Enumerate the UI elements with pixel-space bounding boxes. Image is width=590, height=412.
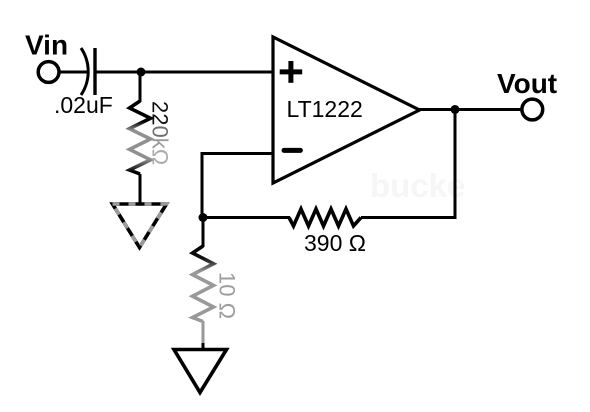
wire node B to resistor R2 [202,216,290,219]
svg-text:390 Ω: 390 Ω [304,230,366,256]
op-amp minus input symbol [284,148,300,153]
resistor R2 390 [289,209,361,226]
label Vin [25,30,68,61]
node A junction dot [137,68,146,77]
op-amp plus input symbol [280,61,303,83]
ground (under R3) [174,350,227,393]
resistor R3 10 [193,246,214,322]
wire node B down to resistor R3 [202,218,205,248]
svg-text:220kΩ: 220kΩ [148,101,173,165]
wire minus input down to node B [201,152,204,219]
node B junction dot [199,213,208,222]
ground (under R1) [113,204,167,248]
svg-text:.02uF: .02uF [54,92,113,118]
svg-text:Vin: Vin [25,30,68,61]
wire op-amp output to Vout [417,108,522,111]
resistor R1 220k [130,101,151,174]
svg-text:LT1222: LT1222 [287,96,363,122]
value label 220kOhm [148,101,173,165]
capacitor C1 [81,48,95,95]
wire resistor R3 to ground (gray then black) [202,321,205,349]
value label .02uF [54,92,113,118]
svg-text:Vout: Vout [497,68,557,99]
wire resistor R2 to feedback corner [361,216,457,219]
label LT1222 [287,96,363,122]
value label 10 Ohm [215,272,240,319]
terminal Vout [522,99,543,120]
wire feedback vertical up to output [454,110,457,220]
wire node A down to resistor R1 [139,72,142,102]
wire resistor R1 to ground [139,174,142,203]
wire Vin terminal to capacitor [61,71,88,74]
label Vout [497,68,557,99]
watermark (faint) [370,167,465,204]
terminal Vin [38,62,59,83]
wire op-amp minus input horizontal [202,152,274,155]
svg-text:10 Ω: 10 Ω [215,272,240,319]
op-amp U1 triangle [273,37,420,183]
value label 390 Ohm [304,230,366,256]
wire capacitor to op-amp + input [97,71,274,74]
svg-text:bucke: bucke [370,167,465,204]
node C output junction dot [451,105,460,114]
